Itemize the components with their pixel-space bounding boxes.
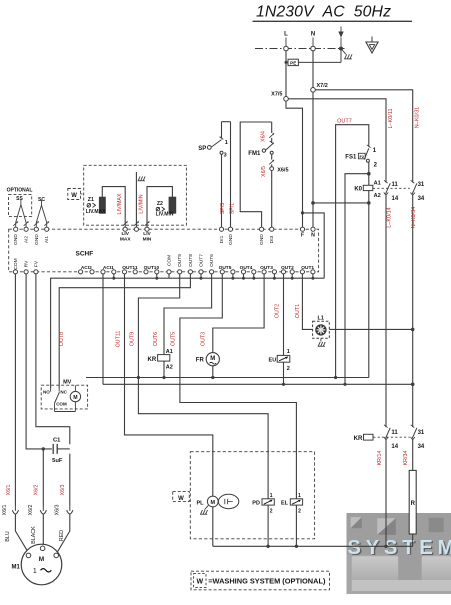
svg-text:A2: A2 bbox=[166, 364, 173, 370]
wire K0 14 down bbox=[385, 196, 387, 428]
wire PL down bbox=[212, 507, 214, 546]
svg-text:NC: NC bbox=[60, 389, 67, 394]
connectors X6 bbox=[12, 510, 18, 514]
bus N return 2 bbox=[103, 383, 413, 385]
svg-text:L–K0/11: L–K0/11 bbox=[388, 108, 394, 128]
svg-text:BLU: BLU bbox=[5, 531, 11, 541]
contact KR 31/34 bbox=[411, 425, 415, 428]
svg-text:ACI2: ACI2 bbox=[81, 265, 92, 271]
node PE junction bbox=[339, 47, 343, 51]
relay coil K0 bbox=[368, 174, 370, 186]
svg-text:A2: A2 bbox=[374, 193, 381, 199]
svg-text:OUT11: OUT11 bbox=[116, 331, 122, 348]
svg-text:1: 1 bbox=[298, 493, 301, 499]
caption washing system optional bbox=[191, 571, 330, 590]
svg-text:X6/1: X6/1 bbox=[6, 485, 12, 496]
wire L to F terminal bbox=[286, 101, 303, 227]
svg-text:OUT7: OUT7 bbox=[199, 254, 205, 267]
svg-text:FR: FR bbox=[196, 358, 205, 364]
svg-text:1: 1 bbox=[33, 568, 37, 575]
svg-text:Z2: Z2 bbox=[157, 201, 163, 207]
wire Z1 to LIV MAX terminal bbox=[102, 187, 125, 227]
level probe dashed box bbox=[84, 165, 187, 225]
svg-text:OUT6: OUT6 bbox=[209, 254, 215, 267]
filter box PE bbox=[286, 61, 288, 63]
wire BLACK bbox=[42, 449, 44, 506]
svg-text:OPTIONAL: OPTIONAL bbox=[7, 188, 33, 194]
svg-text:OUT2: OUT2 bbox=[274, 304, 280, 318]
svg-text:LIV: LIV bbox=[143, 231, 151, 237]
svg-text:MV: MV bbox=[63, 379, 72, 385]
svg-text:DI1: DI1 bbox=[219, 235, 225, 243]
svg-text:SCHF: SCHF bbox=[76, 250, 94, 257]
svg-text:PE: PE bbox=[290, 61, 296, 66]
wire RV to C1 bbox=[26, 274, 52, 449]
wire OUT9 to PD bbox=[138, 274, 268, 499]
controller box SCHF bbox=[9, 229, 319, 272]
ground under PL bbox=[205, 505, 209, 509]
svg-text:COM: COM bbox=[13, 258, 19, 269]
svg-text:BLACK: BLACK bbox=[31, 526, 37, 544]
svg-text:W: W bbox=[196, 579, 203, 586]
svg-text:34: 34 bbox=[418, 444, 425, 450]
svg-text:OUT9: OUT9 bbox=[177, 254, 183, 267]
svg-text:RED: RED bbox=[59, 530, 65, 541]
svg-text:L–K0/14: L–K0/14 bbox=[386, 207, 392, 228]
wire FS1 to bus2 bbox=[345, 174, 369, 385]
svg-text:M: M bbox=[73, 395, 77, 401]
svg-text:LIV: LIV bbox=[121, 231, 129, 237]
node FS1-K0 junction bbox=[367, 172, 371, 176]
svg-text:COM: COM bbox=[167, 255, 173, 266]
svg-text:LIV.MAX: LIV.MAX bbox=[86, 209, 106, 215]
wire K0 A2 down to bus1 bbox=[368, 203, 370, 378]
svg-text:X6/2: X6/2 bbox=[34, 485, 40, 496]
svg-text:KR: KR bbox=[148, 357, 157, 363]
svg-text:14: 14 bbox=[392, 196, 399, 202]
svg-text:31: 31 bbox=[418, 430, 425, 436]
svg-text:C1: C1 bbox=[53, 437, 61, 443]
svg-text:A1: A1 bbox=[166, 349, 173, 355]
svg-text:1: 1 bbox=[270, 493, 273, 499]
svg-text:X6/4: X6/4 bbox=[260, 131, 266, 142]
return wire bottom bbox=[213, 545, 413, 547]
svg-text:3: 3 bbox=[224, 153, 227, 159]
svg-text:GND: GND bbox=[34, 234, 40, 245]
W box lower bbox=[173, 492, 190, 502]
LIV terminal slashes bbox=[123, 221, 128, 225]
wires into motor M1 bbox=[15, 514, 28, 553]
wire MV NO feed / commons link bbox=[51, 278, 325, 389]
svg-text:A1: A1 bbox=[374, 180, 381, 186]
optional dashed box bbox=[9, 195, 32, 217]
wire FM1 loop left bbox=[240, 122, 272, 227]
svg-text:X6/3: X6/3 bbox=[54, 505, 60, 516]
node C1 black tap bbox=[42, 447, 45, 450]
resistor R bbox=[412, 440, 414, 470]
svg-text:SP/1: SP/1 bbox=[230, 203, 236, 215]
motor in MV bbox=[70, 391, 80, 401]
svg-text:MIN: MIN bbox=[143, 236, 152, 242]
wire PD down bbox=[267, 505, 269, 546]
svg-text:SP: SP bbox=[198, 146, 206, 152]
motor M1 bbox=[21, 544, 62, 585]
svg-text:X7/5: X7/5 bbox=[271, 91, 282, 97]
svg-text:11: 11 bbox=[391, 430, 398, 436]
svg-text:2: 2 bbox=[298, 509, 301, 515]
wire L branch to commons bbox=[303, 213, 325, 278]
svg-text:OUT6: OUT6 bbox=[153, 332, 159, 346]
wire N to K0 A2 bbox=[313, 202, 369, 204]
svg-text:Z1: Z1 bbox=[88, 197, 94, 203]
svg-text:OUT10: OUT10 bbox=[144, 265, 160, 271]
svg-text:X7/2: X7/2 bbox=[317, 83, 328, 89]
wire FV to motor aux bbox=[36, 274, 70, 444]
wire OUT2 to EU bbox=[283, 274, 285, 356]
svg-text:OUT1: OUT1 bbox=[295, 304, 301, 318]
wire L1 to N bus bbox=[329, 328, 412, 330]
wire OUT11 to PL bbox=[125, 274, 213, 496]
wire N to K0 contact 31 bbox=[315, 90, 412, 183]
svg-text:N: N bbox=[311, 32, 315, 38]
earth symbol PE bbox=[371, 37, 373, 43]
svg-text:1N230V AC 50Hz: 1N230V AC 50Hz bbox=[256, 4, 391, 21]
svg-text:2: 2 bbox=[270, 509, 273, 515]
wire Z2 to LIV MIN terminal bbox=[147, 187, 172, 227]
wire AO1 to bus2 bbox=[102, 274, 104, 384]
svg-text:M: M bbox=[210, 356, 215, 362]
svg-text:31: 31 bbox=[418, 182, 425, 188]
svg-text:M1: M1 bbox=[12, 565, 21, 571]
svg-text:OUT9: OUT9 bbox=[129, 332, 135, 346]
washing system dashed box bbox=[190, 452, 314, 539]
svg-text:N: N bbox=[311, 233, 315, 239]
svg-text:M: M bbox=[211, 500, 216, 506]
svg-text:X6/5: X6/5 bbox=[261, 166, 267, 177]
svg-text:EL: EL bbox=[281, 500, 289, 506]
svg-text:N–K0/34: N–K0/34 bbox=[411, 207, 417, 228]
wire N vertical bbox=[312, 51, 314, 88]
svg-text:NO: NO bbox=[43, 389, 50, 394]
bus N return 1 bbox=[86, 377, 369, 379]
svg-text:OUT7: OUT7 bbox=[337, 118, 352, 124]
svg-text:X6/1: X6/1 bbox=[2, 505, 8, 516]
svg-text:1: 1 bbox=[225, 140, 228, 146]
wire RED lower bbox=[69, 454, 71, 506]
svg-text:M: M bbox=[39, 556, 44, 563]
svg-text:W: W bbox=[71, 193, 77, 199]
svg-text:FM1: FM1 bbox=[248, 151, 261, 157]
wire OUT8 to MV NC bbox=[59, 274, 190, 389]
svg-text:K0: K0 bbox=[354, 186, 362, 192]
svg-text:F: F bbox=[301, 233, 304, 239]
svg-text:GND: GND bbox=[13, 234, 19, 245]
svg-text:COM: COM bbox=[56, 402, 67, 407]
svg-text:R: R bbox=[411, 501, 416, 507]
svg-text:AI2: AI2 bbox=[24, 236, 30, 244]
svg-text:OUT1: OUT1 bbox=[301, 265, 314, 271]
svg-text:34: 34 bbox=[418, 196, 425, 202]
svg-text:AI1: AI1 bbox=[44, 236, 50, 244]
svg-text:OUT3: OUT3 bbox=[200, 332, 206, 346]
svg-text:OUT11: OUT11 bbox=[122, 265, 138, 271]
svg-text:ACI1: ACI1 bbox=[103, 265, 114, 271]
svg-text:FS1: FS1 bbox=[345, 154, 357, 160]
wire KR 14 down bbox=[385, 440, 387, 546]
node K0 A2 junction bbox=[367, 201, 371, 205]
svg-text:OUT8: OUT8 bbox=[188, 254, 194, 267]
svg-text:X6/3: X6/3 bbox=[60, 485, 66, 496]
contact K0 11/14 bbox=[384, 180, 388, 183]
svg-text:SS: SS bbox=[16, 196, 23, 202]
watermark logo bbox=[347, 513, 451, 594]
svg-text:14: 14 bbox=[391, 444, 398, 450]
wire EL down bbox=[295, 505, 297, 546]
wire OUT1 to L1 bbox=[302, 274, 312, 330]
contact K0 31/34 bbox=[411, 180, 415, 183]
terminal X6/5 bbox=[270, 167, 274, 171]
svg-text:=WASHING SYSTEM (OPTIONAL): =WASHING SYSTEM (OPTIONAL) bbox=[208, 577, 326, 586]
svg-text:W: W bbox=[178, 496, 184, 502]
svg-text:KR/34: KR/34 bbox=[403, 451, 409, 466]
svg-text:1: 1 bbox=[287, 349, 290, 355]
svg-text:11: 11 bbox=[392, 182, 399, 188]
terminal N bbox=[311, 46, 316, 51]
K0 actuation dashed link bbox=[373, 187, 410, 189]
wire OUT7 loop bbox=[336, 125, 369, 378]
svg-text:2: 2 bbox=[287, 366, 290, 372]
svg-text:DI3: DI3 bbox=[269, 235, 275, 243]
wire L vertical bbox=[285, 51, 287, 97]
svg-text:LIV/MAX: LIV/MAX bbox=[117, 193, 123, 214]
ground at PE dot bbox=[341, 49, 346, 55]
svg-text:EU: EU bbox=[269, 357, 277, 363]
svg-text:GND: GND bbox=[259, 234, 265, 245]
svg-text:X6/2: X6/2 bbox=[28, 505, 34, 516]
svg-text:LIV/MIN: LIV/MIN bbox=[139, 194, 145, 213]
svg-text:LIV.MIN: LIV.MIN bbox=[156, 211, 174, 217]
terminal stubs with disconnect slashes (row1 left) bbox=[15, 223, 17, 228]
svg-text:OUT8: OUT8 bbox=[59, 332, 65, 346]
svg-text:N–K0/31: N–K0/31 bbox=[415, 107, 421, 128]
svg-text:GND: GND bbox=[228, 234, 234, 245]
svg-text:OUT4: OUT4 bbox=[240, 265, 253, 271]
svg-text:L1: L1 bbox=[317, 316, 323, 322]
svg-text:RV: RV bbox=[24, 260, 30, 267]
svg-text:X6/5: X6/5 bbox=[277, 167, 288, 173]
wire SP loop bbox=[221, 122, 223, 139]
svg-text:OUT5: OUT5 bbox=[170, 332, 176, 346]
row2 terminals bbox=[13, 270, 17, 274]
svg-text:SP/3: SP/3 bbox=[220, 203, 226, 215]
svg-text:FV: FV bbox=[33, 260, 39, 267]
svg-text:OUT2: OUT2 bbox=[281, 265, 294, 271]
svg-text:OUT3: OUT3 bbox=[260, 265, 273, 271]
PE entry arrow bbox=[340, 27, 342, 32]
terminal X7/5 bbox=[284, 97, 289, 102]
supply dash-dot line bbox=[255, 48, 345, 50]
wire OUT3 to FR bbox=[213, 274, 264, 353]
svg-text:PL: PL bbox=[197, 500, 205, 506]
svg-text:OUT5: OUT5 bbox=[219, 265, 232, 271]
svg-text:KR: KR bbox=[354, 436, 363, 442]
terminal X7/2 bbox=[311, 88, 316, 93]
wire OUT5 to EL bbox=[180, 274, 297, 499]
ground under L1 bbox=[320, 338, 322, 341]
wire K0 34 down bbox=[412, 196, 414, 428]
svg-text:5uF: 5uF bbox=[52, 458, 63, 464]
wire FM1 right top bbox=[271, 122, 273, 133]
wire OUT6 to KR coil bbox=[164, 274, 212, 355]
wire COM/BLU bbox=[14, 274, 16, 506]
terminal L bbox=[284, 46, 289, 51]
svg-text:KR/14: KR/14 bbox=[377, 451, 383, 466]
contact KR 11/14 bbox=[384, 425, 388, 428]
svg-text:L: L bbox=[284, 32, 288, 38]
wire L to K0 contact 11 bbox=[288, 99, 386, 183]
svg-text:MAX: MAX bbox=[120, 236, 131, 242]
svg-text:PD: PD bbox=[252, 500, 260, 506]
W box upper bbox=[68, 189, 81, 200]
ground electrode wire bbox=[135, 172, 137, 227]
row1 terminals bbox=[14, 227, 18, 231]
